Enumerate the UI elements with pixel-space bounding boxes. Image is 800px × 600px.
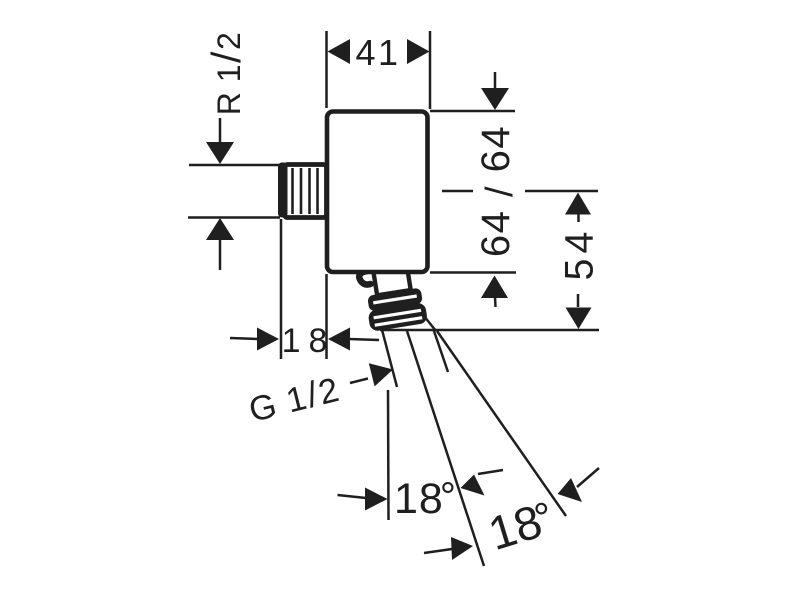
centre line left dash bbox=[442, 190, 473, 193]
R 1/2 lower extension line bbox=[188, 216, 280, 219]
fitting thread stripe 2 bbox=[300, 168, 303, 214]
dim 54 top arrowhead bbox=[565, 193, 591, 215]
spout left edge stub bbox=[381, 326, 397, 387]
dim 41 right extension line bbox=[429, 31, 432, 109]
dim 18 left extension line bbox=[280, 219, 283, 359]
dim 18 right arrowhead bbox=[328, 328, 350, 351]
dim 18 leader right bbox=[349, 339, 379, 340]
fitting end cap bbox=[278, 163, 288, 218]
spout band 2 bbox=[367, 302, 428, 332]
body outline bbox=[327, 112, 428, 273]
spout band 2 slit b bbox=[375, 316, 423, 327]
body bottom extension line right bbox=[430, 271, 516, 274]
angle 18-2 right arrowhead bbox=[558, 478, 583, 502]
dim 54 bottom arrow stem bbox=[577, 294, 580, 307]
dim 54 bottom arrowhead bbox=[566, 308, 592, 330]
body top extension line right bbox=[430, 110, 515, 113]
R 1/2 bottom arrow stem bbox=[219, 239, 222, 270]
dim 64/64 bottom arrow stem bbox=[494, 297, 497, 307]
R 1/2 top arrow stem bbox=[219, 118, 222, 144]
G 1/2 leader line bbox=[350, 379, 368, 384]
spout band 1 slit bbox=[373, 294, 417, 304]
angle 18-1 left arrowhead bbox=[365, 488, 388, 511]
spray axis line 18deg bbox=[407, 331, 484, 566]
dim 64/64 bottom arrowhead bbox=[481, 276, 508, 299]
spout right edge stub bbox=[434, 331, 448, 372]
spray limit line 36deg bbox=[437, 331, 566, 516]
centre line right segment bbox=[525, 190, 598, 193]
R 1/2 top arrowhead bbox=[206, 142, 234, 164]
dim 18 right extension line bbox=[325, 274, 328, 359]
fitting thread stripe 4 bbox=[316, 168, 319, 214]
dim 41 right arrowhead bbox=[407, 39, 430, 64]
dim 54 top arrow stem bbox=[577, 214, 580, 222]
spout assembly (tilted outlet) bbox=[362, 264, 429, 331]
fitting thread body bbox=[285, 165, 327, 218]
svg-text:54: 54 bbox=[558, 227, 602, 281]
angle 18-1 right arrowhead bbox=[461, 475, 485, 496]
R 1/2 bottom arrowhead bbox=[206, 218, 234, 240]
dim 64/64 top arrowhead bbox=[481, 88, 509, 110]
angle 18-1 right leader bbox=[478, 470, 503, 474]
angle 18-2 left leader bbox=[424, 549, 452, 553]
dim 18 leader left bbox=[230, 338, 259, 339]
spout right corner stub bbox=[424, 316, 436, 331]
svg-text:41: 41 bbox=[356, 32, 401, 73]
dim 18 left arrowhead bbox=[257, 328, 279, 351]
angle 18-2 left arrowhead bbox=[451, 537, 473, 560]
vertical reference line bbox=[387, 390, 390, 520]
dim 41 left extension line bbox=[325, 31, 328, 108]
spout neck bbox=[373, 266, 410, 295]
spout band 2 slit a bbox=[373, 309, 421, 320]
svg-text:64 / 64: 64 / 64 bbox=[474, 125, 521, 257]
angle 18-1 left leader bbox=[338, 495, 367, 498]
dim 41 left arrowhead bbox=[328, 39, 351, 64]
fitting thread stripe 3 bbox=[308, 168, 311, 214]
spout band 1 bbox=[367, 288, 423, 312]
angle 18-2 right leader bbox=[577, 468, 599, 487]
R 1/2 upper extension line bbox=[189, 164, 283, 167]
fitting thread stripe 1 bbox=[291, 168, 294, 214]
spout left curl bbox=[359, 271, 370, 285]
G 1/2 arrowhead bbox=[369, 363, 393, 386]
svg-text:18°: 18° bbox=[394, 475, 457, 523]
svg-text:18: 18 bbox=[282, 322, 336, 360]
outlet plane extension line bbox=[380, 329, 599, 332]
dim 64/64 top arrow stem bbox=[494, 72, 497, 90]
